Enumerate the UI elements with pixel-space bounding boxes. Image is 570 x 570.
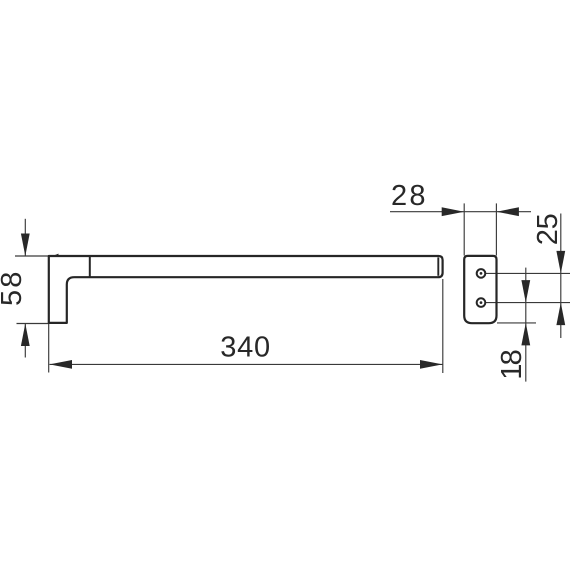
arrow 28 pointing left xyxy=(496,207,519,216)
wall plate outline xyxy=(464,256,496,323)
arrow 25 bottom (up) xyxy=(556,303,565,326)
lower mounting hole ring xyxy=(477,298,486,307)
dimension line 58 upper segment xyxy=(24,219,26,256)
arrow 28 pointing right xyxy=(442,207,465,216)
extension line right of 28 xyxy=(495,203,497,255)
lower hole center dot xyxy=(480,301,483,304)
extension line left of 340 xyxy=(48,324,50,373)
arrow 18 top (down) xyxy=(521,280,530,303)
arrow 340 right xyxy=(420,360,443,369)
dimension line 58 lower segment xyxy=(24,324,26,358)
arrow 58 bottom (up) xyxy=(21,324,30,347)
leader line upper hole xyxy=(485,272,570,274)
dimension line 28 xyxy=(390,211,531,213)
dimension line 18 xyxy=(525,268,527,382)
extension line left of 28 xyxy=(463,203,465,255)
bar end cap inner line xyxy=(437,257,439,275)
towel bar side view outline xyxy=(49,256,443,323)
extension line right of 340 xyxy=(442,279,444,373)
arrow 18 bottom (up) xyxy=(521,323,530,346)
leader line lower hole xyxy=(485,302,570,304)
arrow 340 left xyxy=(50,360,73,369)
svg-text:18: 18 xyxy=(496,349,528,380)
upper mounting hole ring xyxy=(477,269,486,278)
small mark on bar top line xyxy=(51,254,59,257)
svg-text:340: 340 xyxy=(220,332,270,364)
arrow 58 top (down) xyxy=(21,234,30,257)
svg-text:25: 25 xyxy=(532,213,564,245)
dimension line 340 xyxy=(50,363,443,365)
extension line top of 58 xyxy=(15,255,49,257)
arrow 25 top (down) xyxy=(556,251,565,274)
dimension line 25 xyxy=(560,214,562,339)
bracket-to-bar joint line xyxy=(89,256,91,277)
extension line bottom of 58 xyxy=(17,323,50,325)
leader line plate bottom xyxy=(497,322,536,324)
upper hole center dot xyxy=(480,272,483,275)
